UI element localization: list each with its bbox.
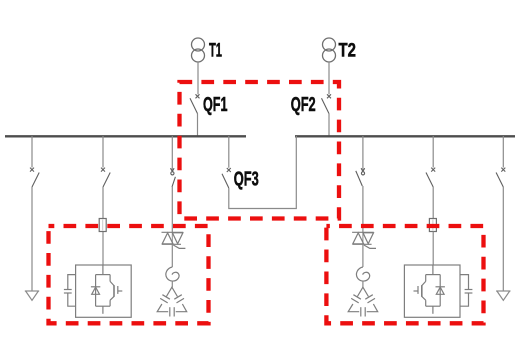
reactor loop left (166, 267, 179, 281)
converter inner circuit right (426, 265, 441, 314)
plug contact arrow right SVC (361, 168, 365, 175)
wire thyristor to reactor loop left (171, 244, 173, 267)
transformer T2 (323, 38, 336, 62)
right busbar (295, 135, 515, 137)
wire SVC switch to thyristor (171, 187, 173, 232)
thyristor valve left (162, 232, 186, 248)
red dashed zone right converter and SVC (326, 226, 483, 323)
wire fuse to converter box (102, 232, 104, 266)
svg-text:T1: T1 (209, 40, 222, 62)
breaker QF2 (322, 94, 332, 113)
wire switch to fuse right (432, 187, 434, 219)
arrow feeder left (25, 291, 39, 300)
transformer T1 (192, 38, 205, 62)
disconnector left feeder (30, 168, 39, 187)
red dashed zone left converter and SVC (49, 226, 209, 323)
wire QF1 to left bus (197, 114, 199, 136)
wire SVC switch to thyristor right (362, 186, 364, 232)
wire bus to right converter switch (432, 136, 434, 168)
breaker QF1 (190, 94, 200, 113)
IGBT left converter (110, 275, 122, 307)
wire switch to fuse (102, 187, 104, 219)
wire fuse to converter box right (432, 232, 434, 266)
IGBT right converter (414, 275, 426, 307)
wire bus to left converter switch (102, 136, 104, 168)
DC capacitor right converter (460, 275, 472, 307)
disconnector left converter (101, 168, 110, 187)
wire loop to capacitor delta right (362, 281, 364, 287)
wire right feeder drop (502, 187, 504, 291)
wire bus to left feeder switch (31, 136, 33, 168)
left busbar (5, 135, 246, 137)
wire thyristor to reactor loop right (362, 244, 364, 267)
reactor loop right (356, 267, 369, 281)
fuse right (429, 219, 436, 232)
wire bus to QF3 (228, 136, 230, 168)
converter box left (76, 265, 132, 317)
diode left converter (91, 287, 100, 295)
wire bus to right feeder switch (502, 136, 504, 168)
red dashed zone QF1 QF2 QF3 (180, 82, 340, 219)
wire bus to right SVC switch (362, 136, 364, 171)
disconnector blade right SVC (356, 171, 363, 186)
converter box right (404, 265, 460, 317)
wire QF3 tie to right bus (229, 136, 296, 209)
DC capacitor left converter (64, 275, 76, 307)
disconnector right converter (426, 168, 435, 187)
delta capacitor bank left (157, 287, 187, 316)
breaker QF3 (222, 168, 231, 188)
delta capacitor bank right (348, 287, 378, 316)
svg-text:QF3: QF3 (234, 168, 259, 191)
arrow feeder right (496, 291, 510, 300)
svg-text:T2: T2 (339, 40, 357, 62)
disconnector blade left SVC (172, 177, 175, 187)
converter inner circuit left (96, 265, 111, 314)
wire T2 to QF2 (328, 62, 330, 94)
fuse left (over dash) (99, 219, 106, 232)
svg-text:QF1: QF1 (203, 93, 228, 116)
thyristor valve right (352, 232, 376, 248)
disconnector right feeder (496, 168, 505, 187)
plug contact arrow left SVC (171, 168, 175, 175)
wire QF2 to right bus (328, 114, 330, 136)
diode right converter (436, 287, 445, 295)
wire left feeder drop (31, 187, 33, 291)
wire T1 to QF1 (197, 62, 199, 94)
svg-text:QF2: QF2 (291, 93, 316, 116)
wire bus to left SVC switch (171, 136, 173, 171)
wire loop to capacitor delta left (171, 281, 173, 287)
